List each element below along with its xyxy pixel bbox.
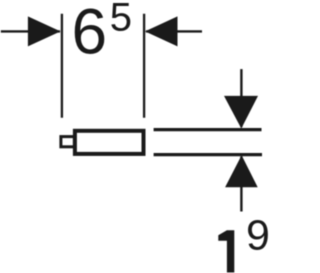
svg-text:6: 6 (72, 0, 108, 67)
svg-text:5: 5 (110, 0, 132, 40)
svg-text:9: 9 (246, 212, 270, 260)
